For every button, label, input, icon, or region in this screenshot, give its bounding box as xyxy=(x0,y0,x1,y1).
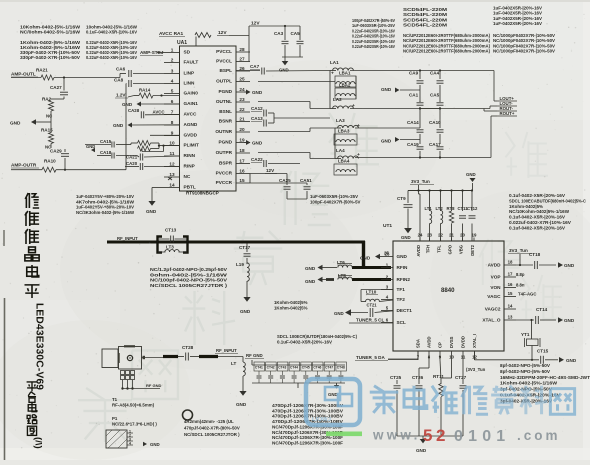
svg-text:1uF-0402X5R-|20%-16V: 1uF-0402X5R-|20%-16V xyxy=(493,21,542,26)
svg-text:LT2: LT2 xyxy=(436,206,444,211)
svg-text:CA25: CA25 xyxy=(279,178,291,183)
svg-text:RA15: RA15 xyxy=(41,128,53,133)
svg-text:22: 22 xyxy=(239,107,245,112)
svg-text:LIOWJ: LIOWJ xyxy=(312,417,331,423)
svg-text:NC/3K3ohm-0402-|5%-1/16W: NC/3K3ohm-0402-|5%-1/16W xyxy=(76,210,135,215)
svg-text:NC/SDCL 1005CR27JTDR ): NC/SDCL 1005CR27JTDR ) xyxy=(150,283,228,288)
svg-text:9: 9 xyxy=(171,131,174,136)
svg-text:SD: SD xyxy=(184,50,191,55)
svg-text:NC/10Kohm-0402|5%-1/16W: NC/10Kohm-0402|5%-1/16W xyxy=(509,209,570,214)
svg-text:LT6: LT6 xyxy=(337,260,345,265)
svg-text:CT44: CT44 xyxy=(290,365,298,369)
svg-text:GND: GND xyxy=(113,123,124,128)
svg-text:6: 6 xyxy=(171,99,174,104)
svg-text:1Kohm-0402|5%: 1Kohm-0402|5% xyxy=(274,300,308,305)
svg-text:0.1uf-0402-X5R-|20%-16V: 0.1uf-0402-X5R-|20%-16V xyxy=(509,215,565,220)
svg-text:330pF-0402-X7R-|10%-50V: 330pF-0402-X7R-|10%-50V xyxy=(20,55,81,60)
svg-text:SDCL 100ECABUTDF(680nH-0402|5%: SDCL 100ECABUTDF(680nH-0402|5%-C xyxy=(509,198,587,203)
svg-text:13: 13 xyxy=(169,172,175,177)
svg-text:CT25: CT25 xyxy=(390,375,402,380)
svg-text:DVDD: DVDD xyxy=(461,336,466,348)
svg-text:GAIN1: GAIN1 xyxy=(184,101,199,106)
svg-text:LED43E330C-V69: LED43E330C-V69 xyxy=(34,303,45,390)
svg-text:1Kohm-0402-|5%-1/16W: 1Kohm-0402-|5%-1/16W xyxy=(500,381,558,386)
svg-text:LBA1: LBA1 xyxy=(339,71,351,76)
svg-text:16: 16 xyxy=(239,169,245,174)
svg-text:UA1: UA1 xyxy=(177,40,187,46)
svg-text:XTAL_O: XTAL_O xyxy=(482,318,500,323)
svg-text:CP: CP xyxy=(438,342,443,348)
svg-text:18: 18 xyxy=(239,148,245,153)
svg-text:PVCCL: PVCCL xyxy=(216,49,232,54)
svg-text:PVCCR: PVCCR xyxy=(216,171,233,176)
svg-text:27: 27 xyxy=(239,57,245,62)
svg-text:T4F-AGC: T4F-AGC xyxy=(518,292,536,297)
svg-text:+: + xyxy=(357,124,360,129)
svg-text:DECT1: DECT1 xyxy=(397,308,413,313)
svg-text:PGND: PGND xyxy=(218,140,232,145)
svg-text:BSPL: BSPL xyxy=(219,68,232,73)
svg-text:LINN: LINN xyxy=(184,81,196,86)
svg-text:GND: GND xyxy=(240,309,251,314)
svg-text:TF1: TF1 xyxy=(397,287,406,292)
svg-text:FAULT: FAULT xyxy=(184,60,199,65)
svg-text:AVCC RA1: AVCC RA1 xyxy=(159,31,183,37)
svg-text:CT21: CT21 xyxy=(367,303,378,308)
svg-text:VON: VON xyxy=(490,285,501,290)
svg-text:(3V3_Tun: (3V3_Tun xyxy=(466,367,486,372)
svg-text:12V: 12V xyxy=(266,168,275,173)
svg-text:NC/100pf-0402-NPO-|5%-50V: NC/100pf-0402-NPO-|5%-50V xyxy=(150,278,227,283)
svg-text:0.1uF-0402-X5R-|20%-16V: 0.1uF-0402-X5R-|20%-16V xyxy=(277,340,332,345)
svg-text:23: 23 xyxy=(239,97,245,102)
svg-text:CA8: CA8 xyxy=(114,78,124,83)
svg-text:CT15: CT15 xyxy=(537,349,549,354)
svg-text:GND: GND xyxy=(564,318,575,323)
svg-text:GND: GND xyxy=(146,209,157,214)
svg-text:CA7: CA7 xyxy=(250,64,260,69)
svg-text:VOP: VOP xyxy=(491,275,501,280)
svg-text:OUTNL: OUTNL xyxy=(216,99,232,104)
svg-text:GND: GND xyxy=(305,266,316,271)
svg-text:+: + xyxy=(352,104,355,109)
svg-text:RF_INPUT: RF_INPUT xyxy=(117,236,138,241)
svg-text:LBA2: LBA2 xyxy=(339,83,351,88)
svg-text:3: 3 xyxy=(171,69,174,74)
svg-text:CT48: CT48 xyxy=(337,365,345,369)
svg-text:20: 20 xyxy=(239,127,245,132)
svg-text:T1: T1 xyxy=(112,397,118,402)
svg-text:GND: GND xyxy=(381,87,392,92)
svg-text:PLIMIT: PLIMIT xyxy=(184,143,199,148)
svg-text:RA10: RA10 xyxy=(44,159,56,164)
svg-text:RA2: RA2 xyxy=(42,97,52,102)
svg-text:RA14: RA14 xyxy=(139,88,151,93)
svg-text:RF-A8(4.50(=6.5mm): RF-A8(4.50(=6.5mm) xyxy=(112,403,155,408)
svg-text:GPO: GPO xyxy=(448,244,453,254)
svg-text:3V3_Tun: 3V3_Tun xyxy=(509,248,528,253)
svg-text:RFIN: RFIN xyxy=(397,265,409,270)
svg-text:12V: 12V xyxy=(218,30,227,36)
svg-text:LA3: LA3 xyxy=(336,118,345,123)
svg-text:CA29: CA29 xyxy=(50,149,62,154)
svg-text:BSPR: BSPR xyxy=(219,161,233,166)
svg-text:4K7ohm-0402-|5%-1/16W: 4K7ohm-0402-|5%-1/16W xyxy=(76,199,135,204)
svg-text:TFH: TFH xyxy=(426,245,431,253)
svg-text:21: 21 xyxy=(449,233,454,238)
svg-text:4: 4 xyxy=(171,79,174,84)
svg-text:GND: GND xyxy=(122,102,133,107)
svg-text:8.8n: 8.8n xyxy=(516,283,525,288)
svg-text:GVDD: GVDD xyxy=(184,133,198,138)
svg-text:18: 18 xyxy=(508,260,513,265)
svg-text:GND: GND xyxy=(401,235,411,240)
svg-text:AGND: AGND xyxy=(184,122,198,127)
svg-text:CT45: CT45 xyxy=(302,365,310,369)
svg-text:3V3_Tun: 3V3_Tun xyxy=(411,179,430,184)
svg-text:AMP-OUTL: AMP-OUTL xyxy=(11,72,36,77)
svg-text:1Kohm-0402|5%: 1Kohm-0402|5% xyxy=(509,204,543,209)
svg-text:CA19: CA19 xyxy=(407,142,419,147)
svg-text:OUTPR: OUTPR xyxy=(216,150,233,155)
svg-text:23: 23 xyxy=(427,233,432,238)
svg-text:0.1uf-0402-X5R-|20%-16V: 0.1uf-0402-X5R-|20%-16V xyxy=(509,225,565,230)
svg-text:GND: GND xyxy=(416,448,427,453)
svg-text:GND: GND xyxy=(466,172,476,177)
svg-text:AVCC: AVCC xyxy=(184,112,198,117)
svg-text:ROUT+: ROUT+ xyxy=(500,111,515,116)
svg-text:16MHz-32DFPM-20FF-HC-49S-SMD-J: 16MHz-32DFPM-20FF-HC-49S-SMD-JWT xyxy=(500,375,590,380)
svg-text:1uF-0402Y5V-+80%-20%-10V: 1uF-0402Y5V-+80%-20%-10V xyxy=(76,194,135,199)
svg-text:NC/1.2pf-0402-NPO-|0.25pf-50V: NC/1.2pf-0402-NPO-|0.25pf-50V xyxy=(150,267,227,272)
svg-text:7: 7 xyxy=(171,110,174,115)
svg-text:GND: GND xyxy=(86,144,95,149)
svg-text:24: 24 xyxy=(418,233,423,238)
svg-text:NC/470DpJf-1206X7R-|30%-100F: NC/470DpJf-1206X7R-|30%-100F xyxy=(272,440,343,445)
svg-text:4: 4 xyxy=(129,442,131,446)
svg-text:OUTPL: OUTPL xyxy=(216,79,232,84)
svg-text:CA10: CA10 xyxy=(429,120,441,125)
svg-text:P1: P1 xyxy=(112,416,118,421)
svg-text:LT: LT xyxy=(231,361,236,366)
svg-text:CT26: CT26 xyxy=(412,375,424,380)
svg-text:DVSS: DVSS xyxy=(449,336,454,348)
svg-text:CT17: CT17 xyxy=(239,245,251,250)
svg-text:CA28: CA28 xyxy=(128,108,140,113)
svg-text:CA13: CA13 xyxy=(251,116,263,121)
svg-text:YT1: YT1 xyxy=(521,332,530,337)
svg-text:CT46: CT46 xyxy=(313,365,321,369)
svg-text:8.8p: 8.8p xyxy=(516,272,525,277)
svg-text:100pF-0402X7R-|50%-5V: 100pF-0402X7R-|50%-5V xyxy=(310,200,361,205)
svg-text:20: 20 xyxy=(460,233,465,238)
svg-text:AMP-OUTR: AMP-OUTR xyxy=(11,163,37,168)
svg-text:GND: GND xyxy=(381,139,392,144)
svg-text:CT42: CT42 xyxy=(267,365,275,369)
svg-text:SDA: SDA xyxy=(416,339,421,348)
svg-text:CA17: CA17 xyxy=(429,142,441,147)
svg-text:PGND: PGND xyxy=(218,89,232,94)
svg-text:14: 14 xyxy=(508,304,513,309)
svg-text:BSNL: BSNL xyxy=(219,109,232,114)
svg-text:CA9: CA9 xyxy=(409,71,419,76)
svg-text:BSNR: BSNR xyxy=(219,119,233,124)
svg-text:21: 21 xyxy=(239,117,245,122)
svg-text:CA1: CA1 xyxy=(409,93,419,98)
svg-text:0ohm-0402-|5%-1/16W: 0ohm-0402-|5%-1/16W xyxy=(150,272,228,277)
svg-text:GND: GND xyxy=(279,68,289,73)
svg-text:CA18: CA18 xyxy=(100,150,112,155)
svg-text:L19: L19 xyxy=(236,262,244,267)
svg-text:24: 24 xyxy=(239,87,245,92)
svg-text:1uF-0402Y5V-+80%-20%-10V: 1uF-0402Y5V-+80%-20%-10V xyxy=(76,205,135,210)
svg-text:8pf-0402-NPO-|5%-50V: 8pf-0402-NPO-|5%-50V xyxy=(500,363,550,368)
svg-text:+: + xyxy=(357,153,360,158)
svg-text:GND: GND xyxy=(252,90,263,95)
svg-text:1.2V: 1.2V xyxy=(116,93,126,98)
svg-text:CT28: CT28 xyxy=(182,345,194,350)
svg-text:TFL: TFL xyxy=(437,245,442,253)
svg-text:19: 19 xyxy=(472,233,477,238)
svg-text:19: 19 xyxy=(239,138,245,143)
svg-text:RA21: RA21 xyxy=(36,68,48,73)
svg-text:GND: GND xyxy=(150,442,160,447)
svg-text:GND: GND xyxy=(334,311,344,316)
svg-text:1uF-0603X5R-|10%-25V: 1uF-0603X5R-|10%-25V xyxy=(310,194,358,199)
svg-text:NC: NC xyxy=(184,174,191,179)
svg-text:8: 8 xyxy=(171,120,174,125)
svg-text:10: 10 xyxy=(169,141,175,146)
svg-text:CA14: CA14 xyxy=(407,120,419,125)
svg-text:+: + xyxy=(331,72,334,77)
svg-text:13: 13 xyxy=(508,315,513,320)
svg-text:0.022uf-0402-X7R-|10%-16V: 0.022uf-0402-X7R-|10%-16V xyxy=(509,220,571,225)
svg-text:CA12: CA12 xyxy=(251,106,263,111)
svg-text:NC/SDCL 1005CR27JTOR ): NC/SDCL 1005CR27JTOR ) xyxy=(184,432,240,437)
svg-text:2: 2 xyxy=(171,58,174,63)
svg-text:CA20: CA20 xyxy=(126,161,138,166)
svg-text:25: 25 xyxy=(384,251,389,256)
svg-text:GND: GND xyxy=(236,402,247,407)
svg-text:VBG: VBG xyxy=(459,245,464,254)
svg-text:NC/UPZ2012E60I-2R0TTF(680uhm-2: NC/UPZ2012E60I-2R0TTF(680uhm-2000mA) xyxy=(403,49,491,54)
svg-text:CT12: CT12 xyxy=(467,206,478,211)
svg-text:17: 17 xyxy=(239,159,245,164)
svg-text:LINP: LINP xyxy=(184,71,195,76)
svg-text:LA4: LA4 xyxy=(336,148,345,153)
svg-text:LT1: LT1 xyxy=(425,206,433,211)
svg-text:CA3: CA3 xyxy=(274,31,284,36)
svg-text:TUNER_5 CL: TUNER_5 CL xyxy=(356,318,384,323)
svg-text:PVCCR: PVCCR xyxy=(216,180,233,185)
svg-text:RFIN2: RFIN2 xyxy=(397,277,411,282)
svg-text:CT27: CT27 xyxy=(455,375,467,380)
svg-text:CA27: CA27 xyxy=(50,85,62,90)
svg-text:NC/22.6*17.3*6-LHD( ): NC/22.6*17.3*6-LHD( ) xyxy=(112,422,157,427)
svg-text:GND: GND xyxy=(564,263,575,268)
svg-text:RT8: RT8 xyxy=(447,206,456,211)
svg-text:LT3: LT3 xyxy=(166,245,174,250)
svg-text:CA6: CA6 xyxy=(116,67,126,72)
svg-text:GND: GND xyxy=(360,256,371,261)
svg-text:VAGC2: VAGC2 xyxy=(485,307,501,312)
svg-text:AVDD: AVDD xyxy=(427,336,432,348)
svg-text:DET2: DET2 xyxy=(470,244,475,255)
svg-text:5: 5 xyxy=(171,89,174,94)
svg-text:CT14: CT14 xyxy=(536,307,548,312)
svg-text:CT47: CT47 xyxy=(325,365,333,369)
svg-text:SCL: SCL xyxy=(397,320,407,325)
svg-text:470pJf-0402-X7R-(80%-50V: 470pJf-0402-X7R-(80%-50V xyxy=(184,426,240,431)
svg-text:CT41: CT41 xyxy=(255,365,263,369)
svg-text:www.: www. xyxy=(372,428,421,443)
svg-text:CT9: CT9 xyxy=(397,196,406,201)
svg-text:17: 17 xyxy=(508,272,513,277)
svg-text:1Kohm-0402|5%: 1Kohm-0402|5% xyxy=(274,306,308,311)
svg-text:CT43: CT43 xyxy=(278,365,286,369)
svg-text:GAIN0: GAIN0 xyxy=(184,91,199,96)
svg-text:PVCCL: PVCCL xyxy=(216,59,232,64)
svg-text:8840: 8840 xyxy=(441,287,455,294)
svg-text:UT1: UT1 xyxy=(383,223,392,229)
svg-text:GND: GND xyxy=(397,254,408,259)
svg-text:SDCL 100ECR)IUTDF(180nH-0402|5: SDCL 100ECR)IUTDF(180nH-0402|5%-C) xyxy=(277,334,358,339)
svg-text:RINN: RINN xyxy=(184,153,196,158)
svg-text:AVDD: AVDD xyxy=(416,245,421,257)
svg-text:CA5: CA5 xyxy=(430,93,440,98)
svg-text:LA1: LA1 xyxy=(330,60,339,65)
svg-text:OUTNR: OUTNR xyxy=(215,129,232,134)
svg-text:GND: GND xyxy=(252,141,263,146)
svg-text:NC: NC xyxy=(46,114,53,119)
svg-text:15: 15 xyxy=(239,178,245,183)
svg-text:.com: .com xyxy=(517,428,561,443)
svg-text:LA2: LA2 xyxy=(333,97,342,102)
svg-text:22: 22 xyxy=(438,233,443,238)
svg-text:GND: GND xyxy=(10,121,21,126)
svg-text:28: 28 xyxy=(239,47,245,52)
svg-text:CT13: CT13 xyxy=(165,228,177,233)
svg-text:CT18: CT18 xyxy=(529,252,541,257)
svg-text:0101: 0101 xyxy=(454,428,510,445)
svg-text:CA51: CA51 xyxy=(300,178,312,183)
svg-text:RF_INPUT: RF_INPUT xyxy=(216,348,237,353)
svg-text:TUNER_5 DA: TUNER_5 DA xyxy=(356,355,385,360)
svg-text:12: 12 xyxy=(169,162,175,167)
svg-text:CA21: CA21 xyxy=(126,155,138,160)
svg-text:RT9108NBGCP: RT9108NBGCP xyxy=(186,191,219,196)
svg-text:(/\): (/\) xyxy=(33,437,44,449)
svg-text:LT10: LT10 xyxy=(366,290,377,295)
svg-text:CA4: CA4 xyxy=(430,71,440,76)
svg-text:AVCC: AVCC xyxy=(153,110,166,115)
svg-text:8pf-0402-NPO-|5%-50V: 8pf-0402-NPO-|5%-50V xyxy=(500,369,550,374)
svg-text:RF GND: RF GND xyxy=(246,353,263,358)
svg-text:XTAL_I: XTAL_I xyxy=(472,334,477,348)
svg-text:0.22uF-0402X5R-|10%-16V: 0.22uF-0402X5R-|10%-16V xyxy=(352,44,395,49)
svg-text:25: 25 xyxy=(239,77,245,82)
svg-text:PBTL: PBTL xyxy=(184,185,196,190)
svg-text:14: 14 xyxy=(169,183,175,188)
svg-text:TF2: TF2 xyxy=(397,297,406,302)
svg-text:0.1uf-0402-X5R-|20%-16V: 0.1uf-0402-X5R-|20%-16V xyxy=(509,193,565,198)
svg-text:CA22: CA22 xyxy=(251,157,263,162)
svg-text:VAGC: VAGC xyxy=(487,294,501,299)
svg-text:CA15: CA15 xyxy=(100,139,112,144)
svg-text:NC/1000pF0402X7R-|10%-50V: NC/1000pF0402X7R-|10%-50V xyxy=(493,49,555,54)
svg-text:SCD54FL-220M: SCD54FL-220M xyxy=(403,23,447,28)
svg-text:0.1uF-0402-X5R-|10%-16V: 0.1uF-0402-X5R-|10%-16V xyxy=(86,30,138,35)
svg-text:16: 16 xyxy=(508,282,513,287)
svg-text:CA5: CA5 xyxy=(291,31,301,36)
svg-text:LBA4: LBA4 xyxy=(338,159,350,164)
svg-text:15: 15 xyxy=(508,291,513,296)
svg-text:GND: GND xyxy=(305,279,316,284)
svg-text:52: 52 xyxy=(423,426,449,445)
svg-text:GND: GND xyxy=(566,358,577,363)
svg-text:NC/0ohm-0402-5%-1/16W: NC/0ohm-0402-5%-1/16W xyxy=(20,30,81,35)
svg-text:4R2mm)42mm- -125 (UL: 4R2mm)42mm- -125 (UL xyxy=(184,419,234,424)
svg-text:1: 1 xyxy=(171,48,174,53)
svg-text:0.22uF-0402-X5R-|10%-16V: 0.22uF-0402-X5R-|10%-16V xyxy=(86,55,138,60)
svg-text:LBA3: LBA3 xyxy=(338,129,350,134)
svg-text:AVDD: AVDD xyxy=(488,263,502,268)
svg-text:GND: GND xyxy=(328,392,338,397)
svg-text:11: 11 xyxy=(170,151,175,156)
svg-text:RF GND: RF GND xyxy=(146,383,161,388)
